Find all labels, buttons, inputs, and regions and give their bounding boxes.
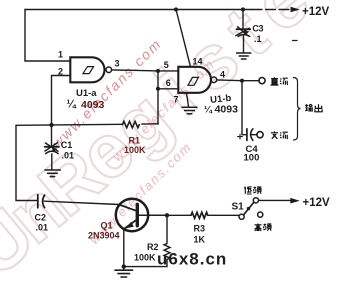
wire pin5 stub	[158, 70, 178, 72]
svg-text:R3: R3	[194, 224, 206, 234]
brace output	[294, 78, 301, 141]
ground C1	[45, 170, 60, 177]
svg-text:100: 100	[244, 153, 260, 164]
capacitor C4	[246, 129, 248, 141]
wire mid rail	[16, 124, 123, 125]
node top rail / C3 junction	[241, 7, 245, 11]
svg-text:7: 7	[174, 95, 179, 105]
wire R1 to feedback	[142, 123, 158, 125]
svg-text:1K: 1K	[194, 235, 206, 245]
op-amp U1-b nand gate body	[178, 67, 211, 93]
label output (shuchu)	[305, 104, 322, 112]
node top rail / pin14 junction	[174, 7, 178, 11]
transistor Q1	[116, 199, 148, 231]
svg-text:14: 14	[193, 57, 203, 67]
wire to C4	[242, 81, 247, 135]
node output junction	[240, 79, 244, 83]
node base junction	[165, 213, 169, 217]
node pin5	[156, 69, 160, 73]
op-amp U1-a nand gate body	[70, 57, 104, 82]
svg-text:S1: S1	[232, 202, 245, 213]
wire pin14 power	[176, 10, 191, 67]
svg-text:¼: ¼	[67, 99, 77, 111]
wire pin6 stub	[158, 88, 178, 90]
svg-text:2: 2	[58, 67, 63, 77]
svg-text:1: 1	[58, 50, 63, 60]
svg-text:Q1: Q1	[101, 221, 113, 231]
capacitor C1	[51, 125, 53, 146]
node mid rail / C1 junction	[49, 123, 53, 127]
wire pin3 to pin5 node	[112, 70, 158, 71]
svg-text:2N3904: 2N3904	[88, 231, 120, 241]
svg-text:C2: C2	[35, 213, 47, 223]
svg-text:100K: 100K	[134, 253, 156, 263]
svg-text:3: 3	[115, 59, 120, 69]
wire feedback vertical	[157, 71, 159, 124]
label DC output (zhiliu)	[271, 77, 289, 85]
resistor R1	[123, 121, 140, 127]
label AC output (jiaoliu)	[271, 131, 288, 139]
wire C2 to Q1	[44, 201, 119, 204]
label high frequency (gaopin)	[255, 224, 272, 232]
wire emitter to ground	[123, 229, 125, 267]
svg-text:.01: .01	[62, 151, 75, 161]
terminal DC output	[259, 78, 265, 84]
ground C3	[237, 53, 251, 59]
svg-text:100K: 100K	[124, 145, 146, 155]
arrow top +12V	[291, 7, 301, 13]
wire C1 to ground	[51, 154, 53, 170]
node pin6	[156, 87, 160, 91]
svg-text:.01: .01	[36, 223, 49, 233]
svg-text:6: 6	[166, 78, 171, 88]
svg-text:5: 5	[164, 60, 169, 70]
wire pin7	[187, 93, 189, 107]
arrow bottom +12V	[290, 198, 300, 204]
wire C3 to ground	[243, 36, 245, 53]
wire C4 to AC terminal	[252, 134, 258, 136]
svg-text:4: 4	[220, 70, 225, 80]
hysteresis symbol U1-a	[83, 67, 94, 74]
wire pin1 branch	[25, 10, 71, 62]
svg-text:C3: C3	[252, 24, 263, 34]
hysteresis symbol U1-b	[188, 77, 198, 85]
wire pin2 branch	[52, 76, 71, 126]
wire pin4 output	[217, 79, 260, 82]
ground U1-b pin7	[182, 107, 197, 113]
wire top +12V rail	[25, 9, 252, 11]
svg-text:¼ 4093: ¼ 4093	[204, 104, 238, 116]
svg-text:+12V: +12V	[303, 197, 331, 209]
svg-text:+12V: +12V	[302, 6, 330, 18]
svg-text:C1: C1	[61, 140, 73, 150]
bubble U1-a output	[106, 67, 112, 73]
capacitor C3	[242, 10, 244, 29]
wire S1 to +12V	[259, 199, 291, 201]
resistor R2	[124, 215, 170, 266]
node emitter / R2	[122, 264, 126, 268]
switch S1	[239, 214, 244, 219]
terminal AC output	[257, 132, 263, 138]
capacitor C2	[37, 195, 39, 208]
circuit ink	[16, 7, 301, 277]
svg-text:R1: R1	[129, 136, 141, 146]
watermark: pink elecfans text lines	[49, 35, 218, 247]
wire left rail	[16, 125, 37, 200]
wire base to R3	[167, 214, 191, 216]
resistor R3	[191, 212, 208, 218]
bubble U1-b output	[211, 77, 217, 83]
wire R3 to S1	[208, 214, 239, 216]
ground Q1 emitter	[115, 270, 133, 277]
svg-text:.1: .1	[254, 34, 262, 44]
speck artifact	[293, 40, 298, 42]
svg-text:u6x8.cn: u6x8.cn	[157, 250, 227, 269]
svg-text:U1-a: U1-a	[76, 88, 97, 99]
svg-text:4093: 4093	[81, 99, 105, 111]
label low frequency (dipin)	[244, 187, 261, 194]
